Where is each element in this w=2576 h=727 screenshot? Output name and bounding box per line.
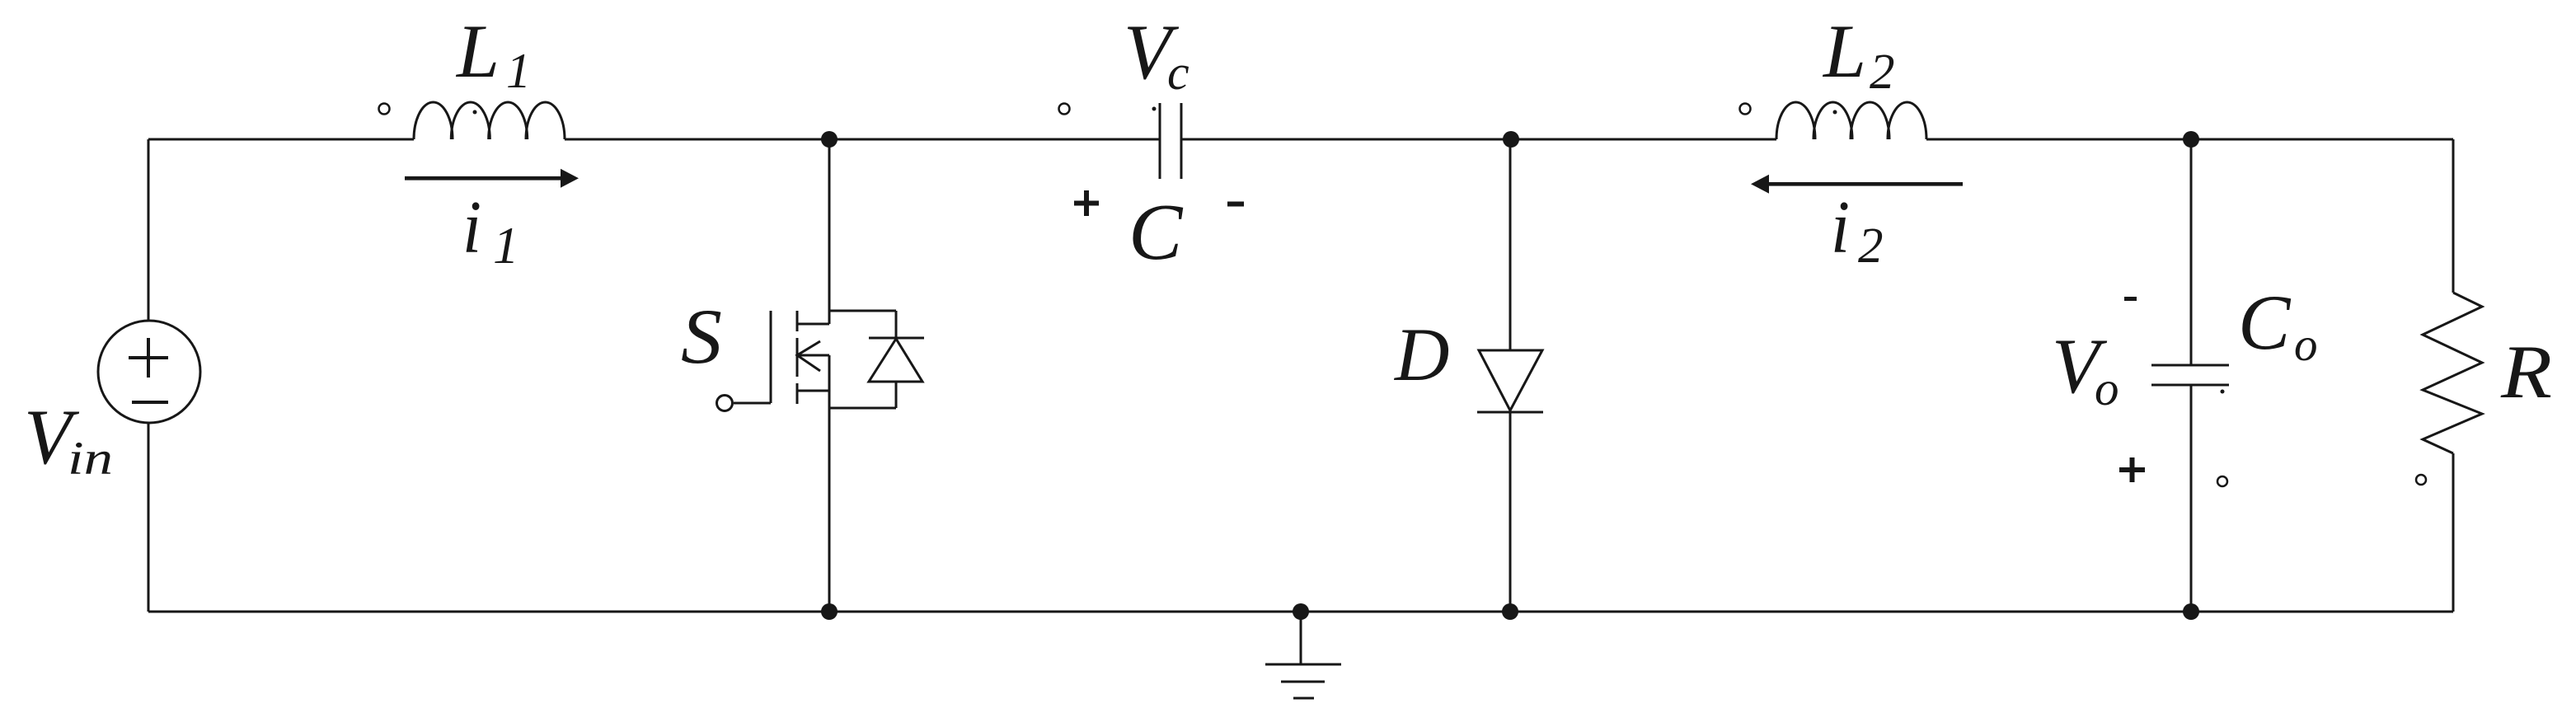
svg-text:C: C [1128, 188, 1184, 277]
svg-text:1: 1 [506, 44, 531, 98]
resistor R zigzag [2423, 293, 2482, 453]
svg-text:2: 2 [1870, 45, 1895, 100]
MOSFET channel segment bottom [796, 383, 799, 404]
svg-text:S: S [681, 293, 722, 380]
junction node: diode D bottom [1502, 603, 1518, 620]
wire top (C to L2) [1181, 138, 1776, 141]
current arrow i2 [1751, 175, 1963, 194]
capacitor Co top wire [2190, 139, 2193, 365]
svg-text:o: o [2095, 361, 2119, 415]
MOSFET source bar [797, 390, 829, 392]
inductor L1 [414, 102, 453, 139]
MOSFET gate line [770, 311, 772, 403]
body diode cathode lead [895, 311, 898, 338]
wire top-left segment [148, 138, 414, 141]
MOSFET body horizontal [797, 354, 829, 357]
MOSFET gate terminal circle [717, 396, 733, 411]
minus sign of C [1227, 202, 1244, 207]
MOSFET channel segment middle [796, 338, 799, 377]
capacitor C plates [1159, 103, 1161, 179]
ground bar 1 [1265, 664, 1341, 666]
svg-text:R: R [2500, 330, 2552, 414]
junction node: MOSFET drain top [821, 131, 838, 148]
wire left upper [148, 139, 150, 321]
stray dot near L1 [473, 110, 477, 115]
svg-text:i: i [462, 185, 481, 269]
junction node: Co bottom [2183, 603, 2199, 620]
junction node: Co top [2183, 131, 2199, 148]
svg-text:in: in [68, 433, 113, 485]
MOSFET drain wire [828, 139, 831, 324]
current arrow i1 [405, 169, 579, 188]
stray dot near C [1152, 107, 1157, 111]
wire left lower [148, 423, 150, 612]
diode D cathode wire [1509, 412, 1512, 612]
plus sign of C [1074, 190, 2145, 482]
wire right upper [2452, 139, 2455, 293]
svg-text:i: i [1831, 185, 1850, 269]
junction node: ground [1293, 603, 1309, 620]
diode D cathode bar [1477, 411, 1543, 414]
stray dot near Co [2221, 390, 2225, 394]
Vin source plus sign [129, 338, 168, 402]
svg-text:2: 2 [1858, 218, 1884, 274]
ground bar 3 [1293, 697, 1314, 700]
wire top middle (L1 to C) [565, 138, 1160, 141]
MOSFET gate wire [734, 402, 771, 405]
svg-text:c: c [1167, 45, 1189, 100]
L1 polarity terminal circle [379, 104, 390, 115]
ground bar 2 [1281, 681, 1325, 683]
C polarity terminal circle [1059, 104, 1070, 115]
capacitor Co top plate [2151, 364, 2229, 367]
wire right lower [2452, 453, 2455, 612]
inductor L2 [1776, 102, 1815, 139]
MOSFET channel segment top [796, 311, 799, 331]
L2 polarity terminal circle [1740, 104, 1751, 115]
capacitor Co bottom wire [2190, 385, 2193, 612]
ground stem [1300, 612, 1302, 664]
MOSFET source wire [828, 355, 831, 612]
body diode anode lead [895, 382, 898, 408]
junction node: diode D top [1503, 131, 1519, 148]
R polarity terminal circle [2416, 475, 2426, 485]
plus sign of Vo [2119, 467, 2145, 472]
wire top right segment [1926, 138, 2453, 141]
svg-text:o: o [2294, 319, 2318, 371]
minus sign of Vo [2124, 297, 2137, 301]
voltage source Vin circle [98, 321, 200, 423]
diode D anode wire [1509, 139, 1512, 350]
svg-text:C: C [2238, 279, 2292, 366]
junction node: MOSFET source bottom [821, 603, 838, 620]
svg-text:L: L [1822, 9, 1866, 93]
body diode triangle [869, 339, 922, 382]
MOSFET drain bar [797, 323, 829, 326]
svg-text:D: D [1393, 312, 1449, 396]
stray dot near L2 [1833, 110, 1837, 115]
body diode bottom branch [829, 407, 896, 410]
svg-text:L: L [455, 9, 500, 93]
diode D triangle [1479, 350, 1542, 410]
body diode cathode bar [869, 337, 924, 340]
body diode top branch [829, 310, 896, 312]
Vin source minus sign [132, 401, 168, 404]
Co polarity terminal circle [2217, 476, 2227, 486]
MOSFET body arrow lines [797, 341, 820, 371]
capacitor Co bottom plate [2151, 384, 2229, 387]
wire bottom [148, 611, 2453, 613]
svg-text:1: 1 [493, 217, 519, 274]
